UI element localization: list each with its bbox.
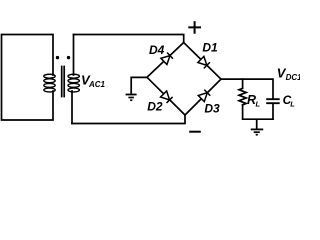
- svg-text:D2: D2: [147, 99, 163, 113]
- svg-text:D1: D1: [202, 41, 218, 55]
- svg-text:DC1: DC1: [286, 73, 300, 82]
- svg-text:D3: D3: [204, 101, 220, 115]
- svg-text:AC1: AC1: [88, 80, 106, 89]
- svg-text:L: L: [256, 99, 261, 108]
- svg-text:D4: D4: [149, 43, 165, 57]
- svg-text:L: L: [290, 100, 295, 109]
